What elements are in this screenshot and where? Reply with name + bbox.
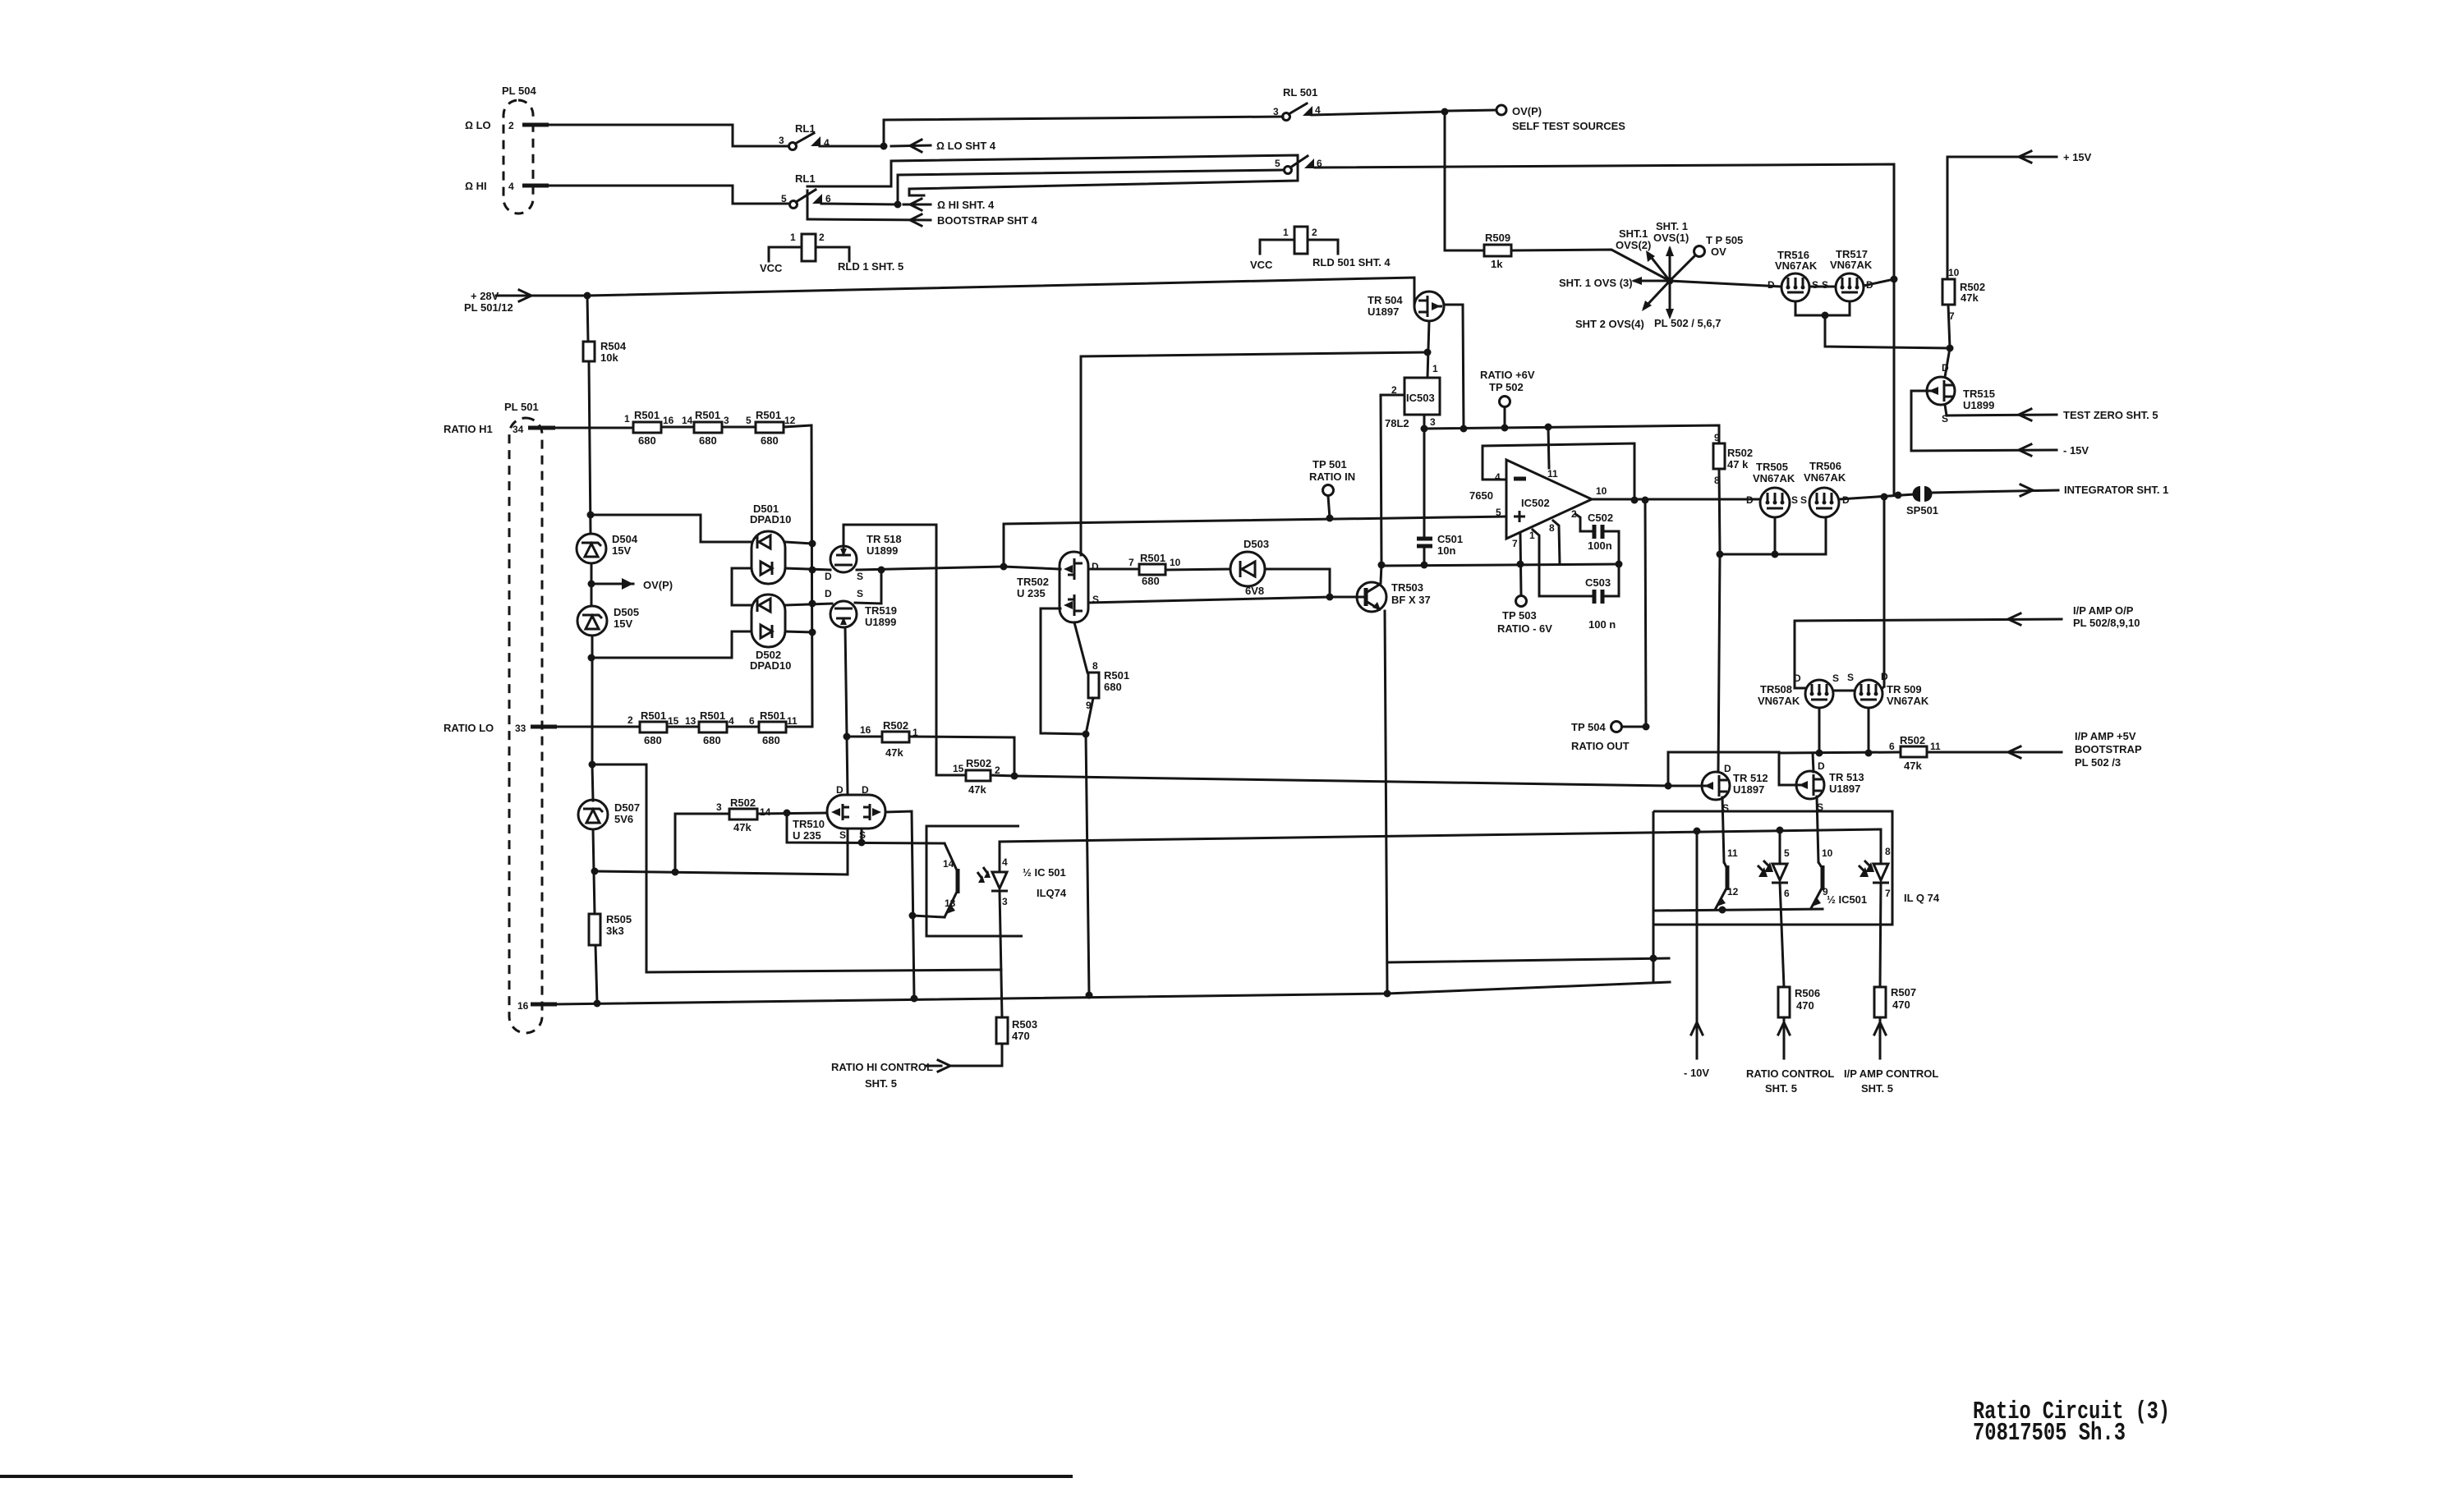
- svg-text:D504: D504: [612, 533, 638, 545]
- wire RL501-6 to right then down: [1315, 164, 1894, 494]
- junction D501 feed: [587, 512, 595, 519]
- svg-text:TR 504: TR 504: [1368, 294, 1403, 306]
- wire TR518 gate up over to R502-15: [844, 525, 966, 775]
- wire junction up to RL501-3: [884, 117, 1283, 146]
- wire R501 link: [727, 726, 759, 728]
- junction TR504 drain on rail: [1460, 425, 1468, 433]
- wire TR503 emitter down to guard rail: [1385, 611, 1387, 994]
- relay coil RLD501: [1250, 227, 1391, 271]
- wire IC502 pin1 to C503: [1533, 530, 1594, 596]
- resistor R501 (8-9) 680: [1086, 660, 1129, 711]
- resistor R502 (10-7) 47k: [1942, 267, 1985, 322]
- svg-text:VN67AK: VN67AK: [1758, 695, 1800, 707]
- svg-text:IC502: IC502: [1521, 497, 1550, 509]
- svg-text:SHT.1: SHT.1: [1619, 227, 1648, 240]
- wire Ω LO from pin 2 to RL1: [547, 125, 788, 146]
- svg-text:S: S: [1791, 494, 1798, 506]
- resistor R506 470: [1778, 987, 1820, 1017]
- transistor TR513 U1897: [1795, 760, 1864, 813]
- svg-text:70817505 Sh.3: 70817505 Sh.3: [1973, 1419, 2126, 1448]
- resistor R502 (3-14) 47k: [716, 796, 771, 833]
- svg-text:5: 5: [1784, 847, 1790, 859]
- svg-text:S: S: [1822, 279, 1828, 291]
- resistor R501 (5-12) 680: [746, 409, 796, 447]
- svg-text:U1899: U1899: [1963, 399, 1994, 411]
- svg-text:5V6: 5V6: [614, 813, 633, 825]
- wire ratio control line to TR512/513: [1014, 776, 1668, 786]
- svg-text:U1897: U1897: [1368, 305, 1399, 318]
- svg-text:DPAD10: DPAD10: [750, 659, 791, 672]
- resistor R502 (6-11) 47k: [1889, 734, 1941, 772]
- svg-text:TR502: TR502: [1017, 576, 1049, 588]
- svg-text:TR 509: TR 509: [1887, 683, 1922, 696]
- svg-text:TR 512: TR 512: [1733, 772, 1768, 784]
- svg-text:47k: 47k: [968, 783, 986, 796]
- svg-text:C501: C501: [1437, 533, 1463, 545]
- relay coil RLD1: [760, 232, 903, 274]
- svg-text:R501: R501: [695, 409, 720, 421]
- junction TR502 gate stem on rail: [1086, 992, 1093, 999]
- svg-text:10: 10: [1170, 557, 1181, 568]
- svg-text:VN67AK: VN67AK: [1887, 695, 1929, 707]
- svg-text:15V: 15V: [612, 544, 631, 557]
- svg-text:7: 7: [1512, 538, 1518, 549]
- capacitor C501 10n: [1417, 429, 1463, 565]
- svg-text:R501: R501: [700, 709, 725, 722]
- svg-text:16: 16: [663, 415, 674, 426]
- svg-text:VN67AK: VN67AK: [1804, 471, 1846, 484]
- svg-text:TR505: TR505: [1756, 461, 1788, 473]
- wire TR504 drain right and down to +6V rail: [1444, 305, 1464, 429]
- svg-text:- 15V: - 15V: [2063, 444, 2089, 457]
- svg-text:13: 13: [945, 897, 956, 909]
- svg-text:680: 680: [638, 434, 656, 447]
- arrow Ω LO SHT 4: [891, 140, 996, 152]
- arrow INTEGRATOR SHT 1: [1932, 484, 2168, 496]
- svg-text:9: 9: [1714, 432, 1720, 443]
- wire TR519 gate stem to TR510 left drain: [847, 737, 848, 795]
- svg-text:R502: R502: [966, 757, 991, 769]
- svg-text:TR515: TR515: [1963, 388, 1995, 400]
- svg-text:2: 2: [627, 714, 633, 726]
- svg-text:OVS(2): OVS(2): [1616, 239, 1651, 251]
- svg-text:PL 504: PL 504: [502, 85, 536, 97]
- testpoint TP503 RATIO -6V: [1497, 534, 1552, 635]
- svg-text:VCC: VCC: [1250, 259, 1273, 271]
- svg-text:3: 3: [716, 801, 722, 813]
- resistor R502 (9-8) 47k: [1713, 432, 1753, 486]
- svg-text:TR519: TR519: [865, 604, 897, 617]
- svg-text:SELF TEST SOURCES: SELF TEST SOURCES: [1512, 120, 1625, 132]
- junction at TR518 source line: [1000, 563, 1008, 571]
- wire contact-post to bootstrap tap: [807, 191, 809, 219]
- svg-text:15: 15: [668, 715, 679, 727]
- svg-text:2: 2: [1312, 227, 1317, 238]
- wire TR508 drain lead: [1795, 687, 1805, 690]
- svg-text:OV(P): OV(P): [643, 579, 673, 591]
- svg-text:½ IC501: ½ IC501: [1827, 893, 1867, 906]
- wire TR512 source down to opto pin11: [1722, 797, 1724, 862]
- opto led pins 5/6: [1758, 830, 1790, 987]
- svg-text:U1897: U1897: [1829, 783, 1860, 795]
- wire R506 down with arrow RATIO CONTROL: [1746, 1017, 1834, 1095]
- svg-text:IC503: IC503: [1406, 392, 1435, 404]
- svg-text:D: D: [1818, 760, 1825, 772]
- wire IC503 pin3 to +6V rail: [1423, 415, 1426, 429]
- wire gate node up over to TR513 gate: [1668, 752, 1795, 786]
- svg-text:1: 1: [790, 232, 796, 243]
- arrow Ω HI SHT.4: [903, 199, 995, 211]
- wire TR516/TR517 gates to R502 node: [1795, 301, 1850, 315]
- diode pair D502 DPAD10: [750, 595, 791, 672]
- svg-text:+ 28V: + 28V: [471, 290, 499, 302]
- svg-text:+ 15V: + 15V: [2063, 151, 2092, 163]
- junction D502 return: [588, 654, 595, 662]
- capacitor C503 100n: [1585, 576, 1616, 631]
- svg-text:470: 470: [1892, 998, 1910, 1011]
- svg-text:10k: 10k: [600, 351, 618, 364]
- svg-text:RL 501: RL 501: [1283, 86, 1317, 99]
- svg-text:I/P AMP +5V: I/P AMP +5V: [2075, 730, 2136, 742]
- resistor R502 (16-1) 47k: [844, 719, 919, 759]
- svg-text:3k3: 3k3: [606, 925, 624, 937]
- svg-text:DPAD10: DPAD10: [750, 513, 791, 526]
- svg-text:680: 680: [699, 434, 717, 447]
- wire R502-3 lead: [675, 814, 729, 872]
- testpoint TP502 RATIO +6V: [1480, 369, 1535, 432]
- junction TR518/TR519 source: [878, 567, 885, 574]
- svg-text:TR 513: TR 513: [1829, 771, 1864, 783]
- svg-text:47k: 47k: [733, 821, 752, 833]
- wire emitter rail inside opto: [1653, 909, 1823, 911]
- wire R509 to star node: [1511, 250, 1670, 281]
- svg-text:PL 502 /3: PL 502 /3: [2075, 756, 2121, 769]
- wire TR509 gate down: [1868, 708, 1870, 753]
- junction R502 bottom: [1717, 551, 1724, 558]
- wire to D501 top: [591, 515, 752, 542]
- svg-text:SHT. 5: SHT. 5: [1765, 1082, 1797, 1095]
- junction R502-3 tap: [672, 869, 679, 876]
- transistor TR503 BFX37: [1357, 581, 1431, 612]
- junction R502-14: [784, 810, 791, 817]
- svg-text:680: 680: [1104, 681, 1122, 693]
- wire R501 string down the guard bus: [784, 425, 812, 727]
- transistor TR508 VN67AK: [1758, 673, 1839, 708]
- wire R501 link: [722, 426, 756, 429]
- wire TR515 source to TEST ZERO: [1945, 405, 2057, 415]
- svg-text:7: 7: [1129, 557, 1134, 568]
- wire ratio-in to IC502 + input: [1004, 516, 1506, 567]
- wire D503 to TR503 base: [1265, 569, 1330, 597]
- wire Ω HI post up and to RL501-5 return loop: [807, 155, 1298, 195]
- junction D507 source rail: [591, 868, 599, 875]
- wire bootstrap gate line: [1779, 752, 1901, 785]
- svg-text:BOOTSTRAP SHT 4: BOOTSTRAP SHT 4: [937, 214, 1038, 227]
- wire -10V feed: [1684, 831, 1709, 1079]
- wire +28V down to R504: [587, 296, 588, 342]
- svg-text:OV: OV: [1711, 246, 1726, 258]
- resistor R505 3k3: [589, 913, 632, 945]
- svg-text:D: D: [1724, 763, 1731, 774]
- svg-text:680: 680: [1142, 575, 1160, 587]
- svg-text:RATIO CONTROL: RATIO CONTROL: [1746, 1067, 1834, 1080]
- svg-text:D: D: [1092, 561, 1099, 572]
- zener D504 15V: [577, 533, 638, 563]
- svg-text:TP 504: TP 504: [1571, 721, 1606, 733]
- junction self-test vertical: [1895, 492, 1902, 499]
- wire C503 right to common: [1602, 595, 1619, 598]
- wire IC502 pin4 feedback loop: [1483, 443, 1634, 500]
- svg-text:5: 5: [1275, 158, 1280, 169]
- opto led pins 8/7: [1859, 829, 1891, 987]
- svg-text:8: 8: [1549, 522, 1555, 534]
- svg-text:RATIO +6V: RATIO +6V: [1480, 369, 1535, 381]
- svg-text:8: 8: [1092, 660, 1098, 672]
- svg-text:3: 3: [1273, 106, 1279, 117]
- svg-text:R501: R501: [1104, 669, 1129, 682]
- wire R501 link: [661, 426, 694, 429]
- svg-text:D: D: [1881, 671, 1888, 682]
- svg-text:R502: R502: [1900, 734, 1925, 746]
- switch RL501 contacts 5-6: [1275, 156, 1322, 174]
- wire TR504 source to TR502 drain: [1081, 352, 1427, 555]
- svg-text:10: 10: [1822, 847, 1833, 859]
- svg-text:S: S: [857, 571, 863, 582]
- transistor TR509 VN67AK: [1847, 671, 1929, 708]
- wire -6V node horizontal: [1381, 564, 1619, 566]
- svg-text:1: 1: [1283, 227, 1289, 238]
- wire TR508 gate down: [1818, 708, 1821, 753]
- svg-text:D505: D505: [614, 606, 639, 618]
- svg-text:PL 502 / 5,6,7: PL 502 / 5,6,7: [1654, 317, 1721, 329]
- wire Ω HI from pin 4 to RL1: [547, 186, 788, 204]
- junction TP504 riser: [1642, 497, 1649, 504]
- wire pin33 to R501 string: [555, 726, 640, 728]
- wire TR503 collector up: [1381, 565, 1381, 583]
- capacitor C502 100n: [1588, 512, 1613, 552]
- diode D503 6V8: [1230, 538, 1269, 597]
- svg-text:SHT 2 OVS(4): SHT 2 OVS(4): [1575, 318, 1644, 330]
- junction feedback on output: [1631, 497, 1639, 504]
- svg-text:C503: C503: [1585, 576, 1611, 589]
- svg-text:2: 2: [819, 232, 825, 243]
- svg-text:5: 5: [1496, 507, 1501, 518]
- wire +28V rail to TR504 gate: [531, 278, 1414, 305]
- svg-text:U 235: U 235: [1017, 587, 1046, 599]
- svg-text:12: 12: [784, 415, 796, 426]
- svg-text:PL 501/12: PL 501/12: [464, 301, 513, 314]
- junction TR504 source: [1424, 349, 1432, 356]
- svg-text:S: S: [859, 829, 866, 841]
- wire D502 bottom return: [591, 631, 752, 658]
- wire D501 top right to guard bus: [785, 542, 812, 544]
- junction TR510 gate loop on rail: [911, 995, 918, 1003]
- junction C502/C503/pin8: [1616, 561, 1623, 568]
- svg-text:R501: R501: [641, 709, 666, 722]
- svg-text:Ω HI SHT. 4: Ω HI SHT. 4: [937, 199, 995, 211]
- svg-text:100n: 100n: [1588, 539, 1612, 552]
- wire TR510 right source: [861, 829, 863, 842]
- svg-text:15: 15: [953, 763, 964, 774]
- svg-text:3: 3: [1430, 416, 1436, 428]
- wire guard rail pin16: [554, 982, 1670, 1004]
- svg-text:680: 680: [761, 434, 779, 447]
- svg-text:I/P AMP CONTROL: I/P AMP CONTROL: [1844, 1067, 1938, 1080]
- svg-text:S: S: [1847, 672, 1854, 683]
- svg-text:9: 9: [1823, 886, 1828, 897]
- svg-text:S: S: [839, 829, 846, 841]
- wire OV(P) junction down to R509: [1445, 112, 1484, 250]
- svg-text:7: 7: [1885, 888, 1891, 899]
- svg-text:6: 6: [749, 715, 755, 727]
- resistor R503 470: [996, 1017, 1037, 1044]
- svg-text:11: 11: [1727, 847, 1738, 859]
- transistor TR504 U1897: [1368, 292, 1444, 321]
- junction OV(P) arrow node: [588, 581, 595, 588]
- terminal OV(P) SELF TEST SOURCES: [1449, 105, 1625, 132]
- resistor R504 10k: [583, 340, 627, 364]
- svg-text:8: 8: [1885, 846, 1891, 857]
- wire RL1-4 to junction: [820, 145, 884, 148]
- svg-text:SP501: SP501: [1906, 504, 1938, 516]
- svg-text:U 235: U 235: [793, 829, 821, 842]
- arrow RATIO HI CONTROL SHT.5: [831, 1060, 950, 1090]
- svg-text:TR503: TR503: [1391, 581, 1423, 594]
- star node OVS distribution: [1631, 246, 1695, 319]
- border line bottom left: [0, 1475, 1073, 1478]
- junction R501-9 / TR502 gate: [1083, 731, 1090, 738]
- svg-text:TP 502: TP 502: [1489, 381, 1524, 393]
- testpoint TP501 RATIO IN: [1309, 458, 1355, 522]
- junction TR509 gate: [1865, 750, 1873, 757]
- wire gate node to TR505 TR506 gates: [1720, 518, 1826, 554]
- junction R504 guard tap: [589, 761, 596, 769]
- svg-text:34: 34: [513, 424, 524, 435]
- junction +28V / R504: [584, 292, 591, 300]
- svg-text:RLD 1 SHT. 5: RLD 1 SHT. 5: [838, 260, 903, 273]
- opto transistor pins 10/9: [1810, 847, 1833, 910]
- svg-text:R505: R505: [606, 913, 632, 925]
- wire R502-2 to junction: [991, 775, 1014, 776]
- svg-text:R506: R506: [1795, 987, 1820, 999]
- wire TR502 bottom source down to R501: [1074, 622, 1087, 673]
- junction TR517 drain: [1891, 276, 1898, 283]
- wire guard column down to D507: [592, 764, 593, 801]
- svg-text:BOOTSTRAP: BOOTSTRAP: [2075, 743, 2142, 755]
- junction R505 on rail: [594, 1000, 601, 1008]
- transistor TR518 U1899: [825, 533, 902, 582]
- svg-text:R502: R502: [1727, 447, 1753, 459]
- svg-text:14: 14: [760, 806, 771, 818]
- arrow BOOTSTRAP SHT 4: [807, 214, 1038, 227]
- opto transistor pins 11/12: [1715, 847, 1739, 910]
- wire IC502 output: [1592, 498, 1760, 501]
- arrow -15V: [2019, 444, 2089, 457]
- wire TR502 drain to R501: [1088, 568, 1139, 571]
- wire R502-14 to TR510 gate: [757, 813, 827, 814]
- transistor TR516 VN67AK: [1768, 249, 1818, 301]
- svg-text:VN67AK: VN67AK: [1753, 472, 1795, 484]
- svg-text:D: D: [825, 588, 832, 599]
- optocoupler 1/2 IC501 ILQ74 (right half) box: [1653, 811, 1940, 925]
- transistor TR502 bottom gate wire to R501 8-9 node: [1041, 608, 1086, 734]
- svg-text:78L2: 78L2: [1385, 417, 1409, 429]
- svg-text:16: 16: [860, 724, 871, 736]
- wire TR519 source link: [855, 570, 881, 604]
- svg-text:RATIO - 6V: RATIO - 6V: [1497, 622, 1552, 635]
- svg-text:BF X 37: BF X 37: [1391, 594, 1431, 606]
- svg-text:6: 6: [1784, 888, 1790, 899]
- arrow OV(P): [595, 578, 673, 591]
- svg-text:R509: R509: [1485, 232, 1510, 244]
- testpoint TP504 RATIO OUT: [1571, 500, 1650, 752]
- junction opto emitter tap: [909, 912, 917, 920]
- wire emitter tap to IC501 pin13: [913, 916, 945, 917]
- wire R502 down across output to gate node: [1719, 469, 1720, 554]
- resistor R501 (1-16) 680: [624, 409, 674, 447]
- svg-text:IL Q 74: IL Q 74: [1904, 892, 1940, 904]
- wire R503 to ratio hi control arrow: [949, 1044, 1002, 1066]
- wire D502 bottom right to guard bus: [785, 631, 812, 632]
- svg-text:R507: R507: [1891, 986, 1916, 998]
- zener D505 15V: [577, 606, 639, 636]
- junction TR510 right source: [858, 839, 866, 847]
- transistor TR517 VN67AK: [1822, 248, 1873, 301]
- svg-text:680: 680: [644, 734, 662, 746]
- wire gate node to TR512 gate: [1668, 785, 1701, 787]
- svg-text:1: 1: [624, 413, 630, 425]
- junction R502/TR515: [1947, 345, 1954, 352]
- wire source rail to TR510 left source: [595, 829, 848, 875]
- wire IC502 pin8 down: [1553, 521, 1560, 564]
- transistor TR512 U1897: [1701, 763, 1768, 814]
- resistor R501 (7-10) 680: [1129, 552, 1181, 587]
- junction IC503 pin3: [1421, 425, 1428, 433]
- wire TR513 source down to opto pin10: [1817, 796, 1818, 862]
- resistor R502 (15-2) 47k: [953, 757, 1000, 796]
- transistor TR506 VN67AK: [1800, 460, 1850, 517]
- transistor TR519 U1899: [825, 588, 897, 628]
- wire star to TR516: [1670, 281, 1781, 287]
- svg-text:47k: 47k: [1961, 292, 1979, 304]
- wire +6V rail (RATIO +6V): [1424, 425, 1719, 443]
- wire +15V down to R502: [1947, 157, 1949, 279]
- junction OV(P): [1441, 108, 1449, 116]
- svg-text:33: 33: [515, 723, 526, 734]
- svg-text:R504: R504: [600, 340, 627, 352]
- svg-text:12: 12: [1727, 886, 1739, 897]
- arrow I/P AMP +5V BOOTSTRAP PL502/3: [1927, 730, 2142, 769]
- svg-text:4: 4: [1002, 856, 1008, 868]
- svg-text:D: D: [1794, 673, 1801, 684]
- svg-text:Ω LO SHT 4: Ω LO SHT 4: [936, 140, 996, 152]
- transistor TR515 U1899: [1927, 362, 1995, 425]
- svg-text:SHT. 1: SHT. 1: [1656, 220, 1688, 232]
- testpoint TP505 OV: [1694, 234, 1744, 258]
- resistor R501 (14-3) 680: [682, 409, 729, 447]
- junction TR508 gate: [1816, 750, 1823, 757]
- svg-text:TP 503: TP 503: [1502, 609, 1537, 622]
- wire RL1-6 junction up to RL501-5 pivot: [898, 170, 1283, 204]
- svg-text:RATIO HI CONTROL: RATIO HI CONTROL: [831, 1061, 933, 1073]
- svg-text:- 10V: - 10V: [1684, 1067, 1709, 1079]
- wire R505 down to pin16 rail: [595, 945, 597, 1003]
- svg-text:R501: R501: [756, 409, 781, 421]
- junction control node: [1011, 773, 1018, 780]
- svg-text:SHT. 5: SHT. 5: [865, 1077, 897, 1090]
- wire D505 down to D502 node: [591, 636, 594, 764]
- junction C501 bottom: [1421, 562, 1428, 569]
